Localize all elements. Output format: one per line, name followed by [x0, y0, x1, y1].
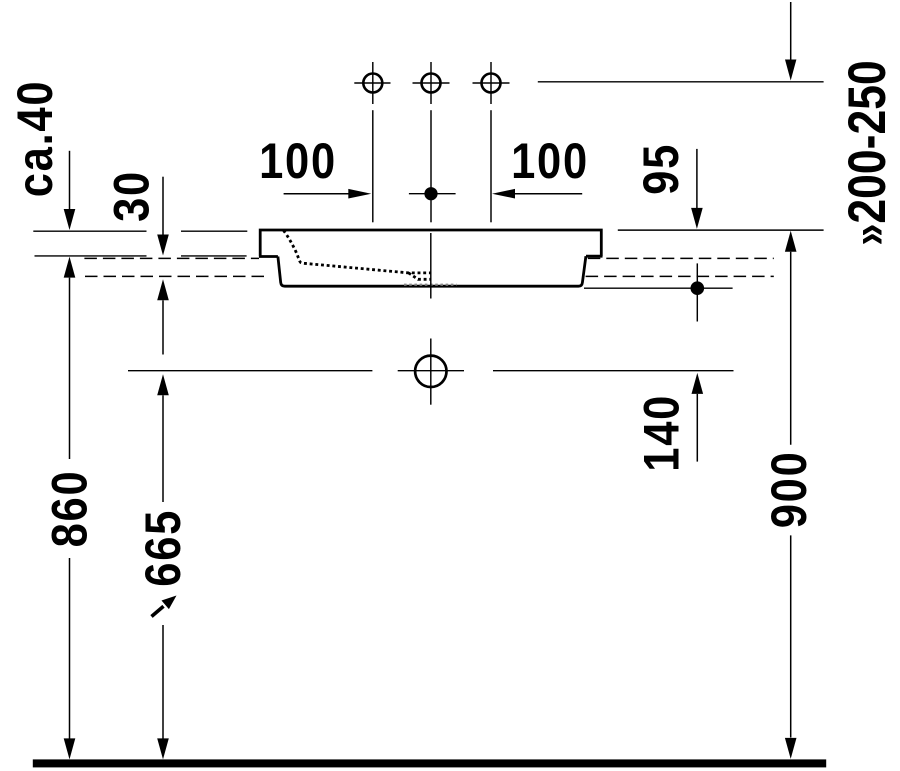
dimension 100 right arrow — [515, 193, 582, 195]
hidden dashed line upper left — [84, 257, 259, 259]
tap hole 2 circle — [422, 74, 441, 93]
rim top level reference line — [618, 229, 824, 231]
drain level reference line right — [493, 370, 734, 372]
dimension ca.40 line — [69, 151, 71, 209]
dimension 95 line — [696, 149, 698, 208]
basin interior dotted drain step — [409, 273, 431, 279]
countertop top line — [33, 230, 146, 232]
basin center line — [430, 233, 432, 299]
tap hole level reference line — [538, 81, 824, 83]
dimension 140 origin dot — [691, 281, 705, 295]
dimension origin dot on tap centerline — [409, 193, 456, 195]
svg-text:665: 665 — [135, 509, 190, 587]
svg-text:140: 140 — [634, 394, 689, 472]
dimension 900 line — [785, 231, 797, 252]
drain crosshair — [398, 370, 464, 372]
dimension 100 left arrow — [284, 193, 349, 195]
hidden dashed line upper right — [588, 257, 774, 259]
dimension 140 line — [692, 373, 704, 394]
tap hole 1 circle — [363, 74, 382, 93]
dimension 200-250 line — [790, 2, 792, 60]
svg-text:900: 900 — [761, 451, 816, 529]
basin underside reference line — [584, 287, 733, 289]
svg-text:ca.40: ca.40 — [7, 80, 62, 198]
adjustable height arrow — [152, 606, 164, 616]
countertop bottom line — [35, 255, 147, 257]
hidden dashed line lower left — [85, 275, 270, 277]
dimension 30 line — [162, 177, 164, 235]
floor line — [33, 759, 826, 767]
basin interior dotted contour — [284, 231, 431, 273]
drain level reference line left — [128, 370, 372, 372]
svg-text:100: 100 — [259, 133, 337, 188]
svg-text:860: 860 — [42, 470, 97, 548]
tap hole 1 centerline — [354, 62, 390, 222]
drain circle — [415, 356, 446, 387]
basin body outline — [278, 256, 586, 286]
svg-text:30: 30 — [103, 170, 158, 222]
dimension 30-to-dashed arrow — [157, 279, 169, 300]
basin rim outline — [260, 230, 601, 257]
dimension 860 line — [64, 257, 76, 278]
hidden dashed line lower right — [586, 275, 774, 277]
drain recess hidden edge — [404, 284, 457, 286]
svg-text:»200-250: »200-250 — [839, 60, 897, 245]
dimension 665 line — [157, 374, 169, 395]
tap hole 3 centerline — [473, 62, 510, 222]
tap hole 2 centerline — [413, 62, 450, 222]
tap hole 3 circle — [482, 74, 501, 93]
svg-text:100: 100 — [511, 133, 589, 188]
svg-text:95: 95 — [633, 143, 688, 195]
